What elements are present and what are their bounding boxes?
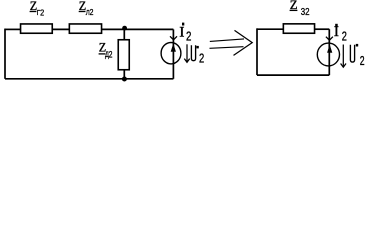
- svg-text:2: 2: [360, 54, 365, 68]
- svg-text:2: 2: [40, 8, 45, 18]
- svg-text:I: I: [179, 24, 184, 40]
- svg-text:2: 2: [342, 30, 347, 44]
- svg-text:I: I: [334, 24, 339, 40]
- svg-text:2: 2: [199, 52, 204, 66]
- svg-text:2: 2: [109, 49, 113, 59]
- svg-text:32: 32: [301, 6, 310, 17]
- svg-text:2: 2: [186, 30, 191, 44]
- svg-text:2: 2: [90, 7, 94, 17]
